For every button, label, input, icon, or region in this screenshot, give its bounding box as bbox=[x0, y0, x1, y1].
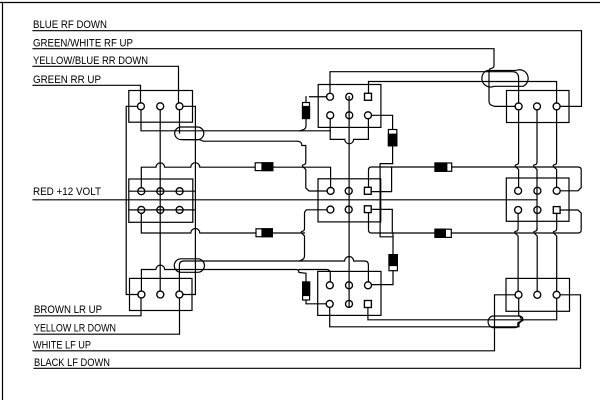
wire net Y131: top-left pin1 bottom, to D1 and mid-top row2 pin1 bbox=[141, 110, 330, 131]
wire net Y233 right band: mid-center row2 square bottom, D8, to right-mid row2 pin3 bbox=[369, 210, 582, 233]
svg-text:YELLOW LR DOWN: YELLOW LR DOWN bbox=[34, 323, 116, 335]
terminal circles B3 bbox=[138, 291, 145, 298]
terminal square B5 row1 pin3 bbox=[364, 187, 371, 194]
switch block B4 (middle-top) rectangle bbox=[318, 85, 381, 128]
wire D2 bottom corner to long vertical x=380 bbox=[380, 164, 393, 237]
wire left bus pin1-to-pin1 (x=126) bbox=[126, 106, 138, 294]
diode D1 bbox=[300, 97, 327, 131]
switch block B3 (bottom-left) rectangle bbox=[130, 278, 193, 310]
wire WHITE LF UP underline + riser to bottom-right block pin1 left bbox=[33, 295, 515, 351]
wire blob S1 output Y140 with step, drop to mid-center row1 pin1 bbox=[180, 110, 328, 191]
wire D2 net: mid-top row2 pin3 right to diode leg bbox=[371, 115, 392, 129]
terminal circles B2 row1 bbox=[138, 188, 145, 195]
svg-text:YELLOW/BLUE RR DOWN: YELLOW/BLUE RR DOWN bbox=[33, 55, 148, 67]
svg-text:RED +12 VOLT: RED +12 VOLT bbox=[33, 186, 101, 198]
svg-text:GREEN/WHITE RF UP: GREEN/WHITE RF UP bbox=[33, 37, 133, 49]
diode D8 bbox=[435, 229, 451, 237]
wire rail left-mid row1 through pins to bus bbox=[129, 190, 195, 192]
wire mid-bottom row2 pin1 down across to stadium S4 weave up to bottom-right pin1 bbox=[330, 298, 522, 327]
connector stadium S2 (top right) bbox=[482, 70, 528, 87]
border frame top line bbox=[0, 2, 600, 4]
wire GREEN/WHITE RF UP underline + drop to top-right block pin1 left bbox=[33, 49, 515, 107]
wire right column bus pin3 mid to bottom bbox=[553, 213, 556, 291]
switch block B9 (right-bottom) rectangle bbox=[506, 278, 570, 311]
connector stadium S4 (bottom right) bbox=[488, 316, 523, 328]
wire center drop: mid-center row2 pin1 left, down past Y233 to Y261 junction bbox=[300, 210, 327, 261]
svg-text:WHITE LF UP: WHITE LF UP bbox=[33, 340, 91, 352]
wire right column bus pin1 (x=518.6) top block to mid block with jog bbox=[515, 110, 518, 188]
wire mid-top square pin3 top across to top-right pin3 bbox=[369, 82, 557, 104]
wire right column bus pin2 mid to bottom bbox=[534, 229, 537, 292]
switch block B5 (middle-center) rectangle bbox=[318, 179, 381, 222]
wire center bus c2 left column (x=160) bbox=[159, 110, 161, 291]
wire net Y269.5: bottom-left pin1 top to blob S3 to D3 and mid-bottom row1 pin1 top bbox=[141, 265, 330, 291]
switch block B1 (top-left) rectangle bbox=[129, 91, 193, 123]
terminal circles B6 row2 bbox=[326, 300, 333, 307]
svg-text:BLACK LF DOWN: BLACK LF DOWN bbox=[34, 357, 110, 369]
connector blob S3 (left lower) bbox=[174, 259, 204, 273]
wire D4 leg up join bbox=[392, 233, 394, 255]
diode D2 bbox=[388, 130, 396, 164]
svg-text:GREEN RR UP: GREEN RR UP bbox=[33, 74, 101, 86]
wire net Y232.7 left: left-mid row2 pin1 bottom, D6, merge to center vertical bbox=[141, 213, 304, 233]
wire net Y167 right band: mid-center row1 square top, D7, to right-mid row1 pin3 bbox=[369, 167, 582, 191]
diode D4 bbox=[372, 255, 398, 285]
wire Y139.4 from mid-top row2 pin1 drop across to row2 pin3 bbox=[330, 119, 368, 144]
terminal circles B8 row1 bbox=[515, 187, 522, 194]
terminal circles B6 row1 bbox=[326, 282, 333, 289]
wire mid-top pin1 top to stadium S2 and down to top-right pin1 bbox=[330, 72, 519, 103]
terminal circles B7 bbox=[515, 103, 522, 110]
border frame left line bbox=[2, 3, 4, 400]
wire stub mid-center row1 square right to Y167 bbox=[371, 167, 391, 192]
terminal circles B5 row2 bbox=[327, 206, 334, 213]
terminal square B6 row2 pin3 bbox=[364, 301, 371, 308]
wire BROWN LR UP underline + riser to bottom-left block pin1 bbox=[34, 298, 141, 316]
terminal circles B4 row2 bbox=[327, 112, 334, 119]
svg-text:BLUE RF DOWN: BLUE RF DOWN bbox=[33, 19, 107, 31]
terminal square B5 row2 pin3 bbox=[364, 206, 371, 213]
switch block B7 (right-top) rectangle bbox=[507, 91, 570, 123]
terminal square B4 row1 pin3 bbox=[365, 93, 372, 100]
diode D6 bbox=[256, 229, 272, 237]
wire c3 bus right of left blocks (x=195.4) bbox=[183, 106, 196, 294]
terminal circles B4 row1 bbox=[327, 93, 334, 100]
wire YELLOW LR DOWN underline + riser to bottom-left block pin3 bbox=[34, 298, 180, 334]
diode D7 bbox=[435, 163, 452, 171]
connector blob S1 (left upper) bbox=[175, 127, 204, 140]
diode D5 bbox=[255, 163, 273, 171]
terminal circles B1 bbox=[137, 103, 144, 110]
switch block B8 (right-middle) rectangle bbox=[506, 178, 569, 221]
wire BLUE RF DOWN underline + right drop to top-right block pin3 bbox=[33, 31, 582, 107]
terminal circles B5 row1 bbox=[327, 187, 334, 194]
wire right column bus pin3 (x=556.6) top to mid bbox=[553, 110, 556, 188]
wire BLACK LF DOWN underline + riser to bottom-right block pin3 right bbox=[34, 295, 581, 369]
diode D3 bbox=[303, 282, 327, 304]
switch block B6 (middle-bottom) rectangle bbox=[318, 271, 381, 315]
wire GREEN RR UP underline + drop to top-left block pin1 top bbox=[33, 85, 141, 103]
wire YELLOW/BLUE RR DOWN underline + drop to top-left block pin3 top bbox=[33, 66, 179, 103]
terminal circles B9 bbox=[515, 291, 522, 298]
svg-text:BROWN LR UP: BROWN LR UP bbox=[34, 304, 102, 316]
wire right column bus pin1 mid to bottom with jog bbox=[515, 213, 518, 291]
wire stub mid-center row2 square right down to Y233 bbox=[371, 209, 392, 233]
terminal circles B2 row2 bbox=[138, 206, 145, 213]
terminal square B8 row2 pin3 bbox=[553, 207, 560, 214]
switch block B2 (left-middle) rectangle bbox=[129, 179, 193, 222]
wire rail left-mid row2 through pins to bus bbox=[129, 209, 195, 211]
wire RED +12V feed line across to right-middle block bbox=[33, 199, 537, 201]
wire net Y261: junction to mid-bottom row1 pin3 top with hop bbox=[179, 257, 368, 292]
wire mid-bottom square pin3 down across stadium S4 up to bottom-right pin3 bbox=[368, 298, 557, 320]
wire center c2 bus x=349 through all three middle blocks bbox=[348, 97, 350, 307]
wire net Y166.8 left: left-mid row1 pin1 top, D5, to mid-center row1 pin1 top bbox=[141, 163, 330, 188]
terminal circles B8 row2 bbox=[515, 207, 522, 214]
wire right column bus pin2 (x=537) top to mid bbox=[534, 110, 537, 229]
